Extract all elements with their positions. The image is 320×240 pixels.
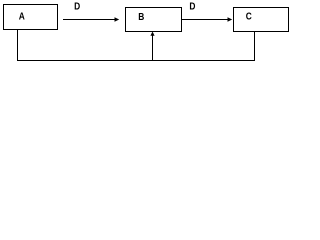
svg-text:C: C bbox=[246, 11, 252, 23]
svg-text:D: D bbox=[74, 1, 80, 13]
svg-text:B: B bbox=[138, 11, 144, 23]
svg-text:D: D bbox=[189, 0, 195, 12]
svg-text:A: A bbox=[19, 11, 25, 23]
